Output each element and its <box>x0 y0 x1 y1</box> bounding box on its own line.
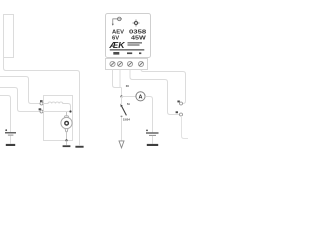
svg-text:45W: 45W <box>131 35 146 41</box>
ground under lamp <box>63 145 71 147</box>
wire from left edge to battery B2 <box>0 96 11 133</box>
connector G2 <box>180 113 183 116</box>
svg-text:15/54: 15/54 <box>123 118 130 122</box>
switch wire above blade <box>121 97 123 106</box>
connector W2 label <box>177 101 179 103</box>
wire ammeter to battery B1 <box>145 97 152 133</box>
terminal labels on unit <box>113 52 141 55</box>
svg-text:A: A <box>139 94 143 100</box>
wire coil junction to connector G <box>43 111 71 113</box>
label AEV 0358 <box>112 30 146 36</box>
terminal strip of unit <box>106 59 148 70</box>
terminal screw 1 <box>110 61 115 66</box>
svg-text:ÆK: ÆK <box>108 40 125 50</box>
ground under battery B1 <box>147 144 158 146</box>
wire switch down <box>121 117 123 141</box>
connector W <box>40 102 43 105</box>
switch contact tick <box>121 116 123 117</box>
wire from generator to right ground rail <box>4 58 80 146</box>
wire terminal 2 down to junction <box>120 70 122 97</box>
terminal screw 4 <box>138 61 143 66</box>
icon indicator lamp symbol on unit <box>133 20 140 27</box>
logo AKA electric <box>108 40 144 50</box>
ground stub under lamp <box>66 140 68 145</box>
svg-text:30: 30 <box>126 84 130 88</box>
svg-text:St: St <box>127 102 130 106</box>
connector G2 label <box>176 111 178 113</box>
label 15/54 <box>123 118 130 122</box>
flasher unit AEV 0358 body <box>106 14 151 58</box>
connector G <box>40 110 43 113</box>
label 6V 45W <box>112 35 146 41</box>
lamp housing box <box>44 96 73 141</box>
junction node dot <box>120 95 122 97</box>
coil L1 in lamp housing <box>43 102 71 111</box>
connector W2 <box>180 102 183 105</box>
wire from left edge to connector G of lamp box <box>0 88 40 112</box>
wire connector G2 to edge <box>182 116 189 139</box>
icon flasher symbol on unit <box>112 17 122 26</box>
battery B2 plus dot <box>5 129 7 131</box>
battery B2 <box>5 132 16 143</box>
wire terminal 1 to junction <box>113 70 122 88</box>
off-page arrow <box>119 141 124 148</box>
generator / element box top-left <box>4 15 14 58</box>
wire terminal 4 to right connector W2 <box>141 70 186 104</box>
junction dot on box bottom <box>65 139 67 141</box>
junction dot in lamp housing <box>69 110 71 112</box>
connector G label <box>39 108 42 110</box>
lamp E1 (bulb) <box>61 112 72 140</box>
ground under battery B2 <box>6 144 15 146</box>
terminal screw 3 <box>127 61 132 66</box>
wire junction to ammeter <box>122 96 136 98</box>
label St <box>127 102 130 106</box>
wire from left edge to connector W of lamp box <box>0 77 40 104</box>
battery B1 plus dot <box>146 130 148 132</box>
label 30 <box>126 84 130 88</box>
ignition switch S1 blade <box>121 104 127 116</box>
terminal screw 2 <box>117 61 122 66</box>
wire terminal 3 to right connector G2 <box>130 70 179 115</box>
ammeter P1 <box>136 92 145 101</box>
connector W label <box>40 100 43 102</box>
battery B1 <box>146 132 159 143</box>
ground (right of lamp box) <box>75 146 83 148</box>
